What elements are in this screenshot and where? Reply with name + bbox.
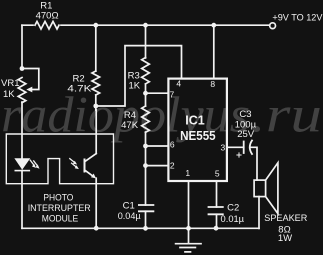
svg-text:VR1: VR1: [1, 78, 19, 89]
wire collector: [95, 106, 97, 154]
svg-text:SPEAKER: SPEAKER: [264, 213, 307, 224]
svg-text:6: 6: [170, 140, 175, 150]
svg-text:1: 1: [185, 168, 190, 178]
svg-text:PHOTO: PHOTO: [43, 193, 73, 204]
svg-text:0.01µ: 0.01µ: [221, 214, 245, 225]
wire pin 8 to rail: [213, 25, 215, 78]
svg-text:.ru: .ru: [250, 88, 322, 144]
svg-text:0.04µ: 0.04µ: [118, 211, 141, 222]
svg-text:1W: 1W: [278, 233, 292, 244]
wire emitter to ground rail: [95, 178, 97, 228]
svg-text:+9V TO 12V: +9V TO 12V: [272, 12, 323, 22]
junction dot R2 / pin4 / collector: [93, 104, 98, 109]
junction dot pin8 / top rail: [211, 23, 216, 28]
junction dot pin 6 node: [143, 144, 148, 149]
svg-text:IC1: IC1: [185, 114, 205, 128]
svg-text:4: 4: [176, 78, 181, 88]
wire R2 to collector junction: [95, 95, 97, 106]
junction dot R2 / top rail: [93, 23, 98, 28]
wire VR1 to LED anode: [21, 102, 23, 159]
wire rail to R3: [145, 25, 147, 58]
svg-text:2: 2: [170, 160, 175, 170]
svg-text:7: 7: [170, 90, 175, 100]
svg-text:470Ω: 470Ω: [36, 10, 59, 21]
resistor R3: [142, 58, 150, 84]
svg-text:25V: 25V: [237, 129, 255, 140]
speaker LS1: [254, 163, 278, 214]
junction dot emitter / ground rail: [94, 226, 99, 231]
junction dot R3 / top rail: [143, 23, 148, 28]
svg-text:47K: 47K: [121, 120, 139, 131]
photo interrupter module outline: [6, 134, 113, 184]
wire rail to VR1: [21, 25, 23, 68]
svg-text:NE555: NE555: [180, 128, 216, 143]
phototransistor: [85, 154, 97, 179]
svg-text:1K: 1K: [3, 89, 15, 100]
wire top supply rail: [22, 24, 273, 26]
resistor R4: [142, 106, 150, 132]
potentiometer VR1: [18, 69, 39, 103]
junction dot C1 / ground rail: [143, 226, 148, 231]
wire C1 to ground rail: [145, 211, 147, 228]
wire pin 2: [146, 165, 169, 167]
wire pin 5 to C2: [216, 181, 218, 207]
svg-text:C1: C1: [123, 201, 135, 212]
junction dot VR1 wiper: [20, 66, 25, 71]
svg-text:3: 3: [221, 143, 226, 153]
wire bottom ground rail: [22, 227, 259, 229]
wire pin 3 to C3: [227, 146, 244, 148]
wire R3 to R4: [145, 84, 147, 106]
capacitor C2: [209, 207, 223, 214]
wire C3 to speaker: [251, 147, 258, 180]
junction dot pin 7 node: [143, 91, 148, 96]
resistor R2: [92, 71, 100, 95]
wire pin 7: [146, 92, 169, 94]
wire C2 to ground rail: [216, 214, 218, 228]
svg-text:INTERRUPTER: INTERRUPTER: [28, 203, 91, 214]
wire pin 6: [146, 145, 169, 147]
svg-text:5: 5: [215, 168, 220, 178]
timer IC1 NE555: [168, 79, 227, 181]
svg-text:MODULE: MODULE: [42, 214, 79, 225]
module label: [28, 193, 91, 225]
svg-text:C3: C3: [239, 109, 251, 120]
C3 polarity plus: [237, 153, 241, 157]
junction dot ground node: [186, 226, 191, 231]
ground symbol: [176, 228, 201, 252]
wire pin 1 to ground rail: [188, 181, 190, 228]
wire rail to R2: [95, 25, 97, 71]
phototransistor light arrows: [70, 159, 79, 170]
wire speaker to ground rail: [258, 197, 260, 229]
LED light arrows: [30, 160, 39, 169]
svg-text:8: 8: [210, 79, 215, 89]
junction dot pin 2 node: [143, 163, 148, 168]
svg-text:1K: 1K: [128, 80, 140, 91]
capacitor C1: [139, 205, 154, 211]
resistor R1: [35, 21, 59, 29]
LED emitter diode: [15, 159, 29, 171]
svg-text:C2: C2: [227, 202, 239, 213]
wire LED cathode to ground rail: [21, 171, 23, 229]
wire R4 to C1: [145, 132, 147, 205]
junction dot C2 / ground rail: [214, 226, 219, 231]
wire pin 4 to R2 junction: [96, 46, 182, 106]
svg-text:4.7K: 4.7K: [67, 83, 92, 94]
power terminal: [270, 23, 276, 29]
capacitor C3 electrolytic: [244, 141, 252, 155]
